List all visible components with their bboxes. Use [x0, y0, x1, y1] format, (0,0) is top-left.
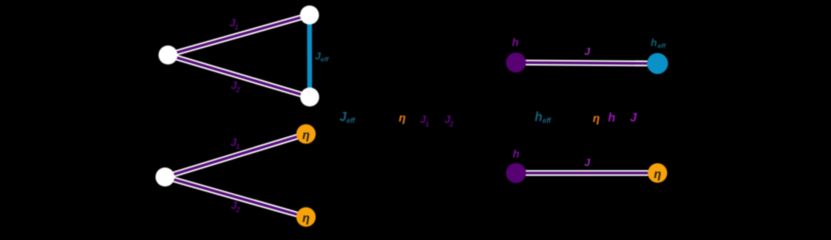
node heff cyan [647, 53, 668, 74]
svg-text:η: η [302, 128, 309, 142]
svg-text:h: h [513, 148, 520, 160]
svg-text:η: η [399, 113, 406, 125]
svg-text:η: η [302, 211, 309, 225]
edge J1 top-left triangle [168, 15, 310, 55]
edge Jeff cyan vertical [307, 15, 312, 97]
node eta orange bottom [296, 207, 315, 226]
node eta orange right [648, 163, 667, 182]
svg-text:η: η [593, 113, 600, 125]
edge J2 top-left triangle [168, 55, 310, 97]
node white top-right of triangle [300, 6, 319, 25]
edge J1 bottom-left [165, 134, 306, 177]
node white bottom-left [156, 168, 175, 187]
edge J bottom-right pair [516, 170, 658, 176]
svg-text:h: h [608, 111, 615, 125]
node h purple top-right [506, 53, 526, 73]
svg-text:η: η [654, 167, 661, 181]
edge J2 bottom-left [165, 177, 306, 217]
node h purple bottom-right [506, 163, 526, 183]
node white left of triangle [159, 46, 178, 65]
node white bottom-right of triangle [300, 88, 319, 107]
svg-text:h: h [512, 37, 519, 49]
svg-text:J: J [630, 111, 637, 125]
node eta orange top [296, 124, 315, 143]
edge J top-right pair [516, 63, 658, 64]
